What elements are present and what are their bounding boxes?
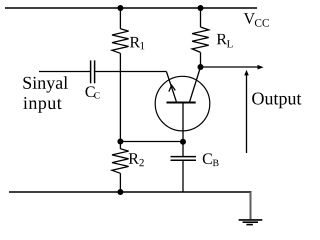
- label input (line 2) "input": [23, 97, 61, 113]
- label RL main "R": [217, 34, 227, 44]
- transistor Q1 base lead down: [182, 102, 184, 141]
- node junction collector / RL / output: [198, 64, 204, 70]
- transistor Q1 circle: [155, 76, 210, 131]
- label CB subscript "B": [213, 160, 219, 166]
- resistor R2: [112, 149, 129, 174]
- arrowhead output right: [258, 65, 264, 70]
- wire base node down to CB: [182, 142, 184, 156]
- label R1 subscript "1": [141, 42, 145, 49]
- label Output text "Output": [252, 92, 301, 108]
- label VCC main "V": [244, 13, 255, 24]
- label VCC subscript "CC": [255, 19, 269, 27]
- label CB main "C": [203, 153, 212, 164]
- label R2 subscript "2": [139, 159, 143, 166]
- wire CB down to ground rail: [182, 160, 184, 192]
- capacitor CB: [171, 157, 197, 161]
- arrowhead output up: [244, 70, 249, 76]
- wire bias node to base node: [120, 141, 183, 143]
- wire top supply rail: [5, 7, 257, 9]
- label CC subscript "C": [94, 92, 99, 98]
- node junction top rail / RL: [198, 5, 204, 11]
- node junction R2 / ground rail: [117, 189, 123, 195]
- wire ground stem (gray): [250, 192, 252, 219]
- wire collector node to output (right): [201, 66, 259, 68]
- capacitor CC: [91, 60, 95, 83]
- transistor Q1 emitter arrowhead: [169, 85, 175, 91]
- wire input right segment to emitter: [95, 71, 166, 73]
- label Sinyal (line 1) "Sinyal": [23, 76, 67, 92]
- transistor Q1 collector line: [189, 67, 200, 102]
- resistor RL: [192, 27, 209, 52]
- wire input left segment: [39, 71, 90, 73]
- wire output vertical arrow line: [246, 74, 248, 154]
- label RL subscript "L": [227, 40, 233, 47]
- wire from top rail down to R1: [119, 8, 121, 29]
- ground symbol: [239, 220, 263, 225]
- transistor Q1 base bar: [167, 102, 196, 104]
- node junction top rail / R1: [117, 5, 123, 11]
- transistor Q1 emitter line: [166, 72, 176, 103]
- node junction base / CB: [180, 139, 186, 145]
- label R2 main "R": [129, 153, 139, 163]
- wire from top rail down to RL: [200, 8, 202, 27]
- label CC main "C": [86, 86, 95, 97]
- wire bottom ground rail: [9, 191, 252, 193]
- wire R2 down to ground rail: [119, 173, 121, 192]
- wire from R1 down to bias node (crosses input wire, no junction): [119, 53, 121, 141]
- wire from RL down to collector node: [200, 52, 202, 67]
- label R1 main "R": [130, 37, 140, 47]
- node junction R1/R2/base wire: [117, 139, 123, 145]
- wire bias node down to R2: [119, 142, 121, 149]
- resistor R1: [112, 29, 129, 54]
